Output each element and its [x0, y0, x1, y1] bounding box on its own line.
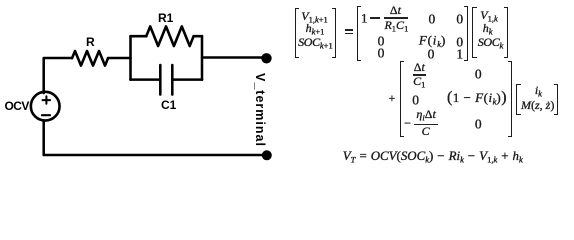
wire: RC box left side — [129, 36, 132, 79]
input vector right bracket — [554, 84, 558, 115]
state vector k entry V1,k — [480, 9, 498, 23]
state vector k entry hk — [483, 22, 493, 36]
plus sign of OCV source — [43, 96, 51, 104]
state vector k left bracket — [472, 7, 476, 58]
fraction denominator R1C1 — [384, 19, 408, 33]
state vector k entry SOCk — [478, 36, 504, 50]
node: V_terminal positive terminal dot — [261, 53, 271, 63]
A matrix a21: 0 — [378, 34, 385, 48]
label R1 — [158, 11, 173, 25]
B matrix b32: 0 — [475, 117, 482, 131]
label R — [86, 35, 95, 49]
equals sign lower bar — [345, 33, 353, 35]
wire: RC box right side — [201, 36, 204, 79]
input vector entry ik — [535, 84, 542, 98]
wire: source bottom to bottom rail — [44, 120, 262, 155]
A matrix a23: 0 — [456, 36, 463, 50]
B matrix b11 denominator C1 — [413, 75, 425, 89]
A matrix a11: 1 - dt/R1C1 — [361, 11, 368, 24]
A matrix a12: 0 — [429, 12, 436, 26]
state vector k+1 right bracket — [332, 8, 336, 58]
A matrix a13: 0 — [456, 12, 463, 26]
wire: box top-right lead — [194, 35, 202, 38]
circuit schematic svg — [0, 0, 290, 171]
wire: box to output terminal — [202, 56, 262, 59]
A matrix a31: 0 — [378, 46, 385, 60]
plus operator — [389, 92, 396, 104]
fraction bar — [384, 17, 408, 18]
state vector k+1 entry V1,k+1 — [301, 10, 328, 24]
fraction dt over R1C1 numerator — [390, 4, 401, 16]
output equation V_T = OCV(SOC_k) - R i_k - V1,k + h_k — [343, 150, 523, 164]
resistor R1 — [146, 26, 193, 46]
node: bottom terminal dot — [262, 150, 272, 160]
capacitor C1 right plate — [171, 65, 174, 95]
B matrix b31 numerator eta_i dt — [416, 108, 435, 122]
B matrix b22: (1 - F(ik)) — [447, 90, 507, 106]
label C1 — [161, 98, 176, 112]
B matrix b31 denominator C — [422, 125, 430, 137]
B matrix b12: 0 — [475, 67, 482, 81]
A matrix a32: 0 — [428, 48, 435, 62]
resistor R — [72, 51, 108, 66]
input vector left bracket — [516, 84, 520, 115]
state vector k+1 entry SOC,k+1 — [298, 36, 333, 50]
state vector k+1 entry h,k+1 — [306, 22, 325, 36]
B matrix b11 fraction bar — [413, 74, 426, 75]
wire: top-left vertical from source to top rail — [44, 58, 72, 93]
capacitor C1 left plate — [159, 65, 162, 95]
wire: R to RC box — [108, 57, 131, 60]
minus sign of a11 — [370, 17, 380, 18]
state vector k+1 left bracket — [295, 8, 299, 58]
wire: capacitor to bottom branch right lead — [172, 78, 202, 81]
B matrix left bracket — [400, 61, 404, 137]
A matrix left bracket — [357, 6, 361, 61]
minus sign of OCV source — [42, 114, 50, 116]
B matrix b31 minus sign — [404, 117, 411, 129]
wire: box top-left lead — [131, 35, 147, 38]
label OCV — [5, 99, 29, 113]
input vector entry M(z, zdot) — [521, 99, 554, 111]
label V_terminal (rotated) — [253, 73, 267, 147]
B matrix b31 fraction bar — [414, 124, 438, 125]
B matrix b21: 0 — [412, 93, 419, 107]
voltage source OCV circle — [31, 92, 60, 121]
wire: bottom branch left lead to capacitor — [131, 78, 161, 81]
state vector k right bracket — [504, 7, 508, 58]
B matrix b11 numerator dt — [414, 61, 425, 73]
A matrix a22: F(ik) — [419, 33, 446, 48]
equals sign — [345, 29, 353, 31]
A matrix right bracket — [464, 6, 468, 61]
B matrix right bracket — [508, 61, 512, 137]
A matrix a33: 1 — [456, 48, 463, 62]
